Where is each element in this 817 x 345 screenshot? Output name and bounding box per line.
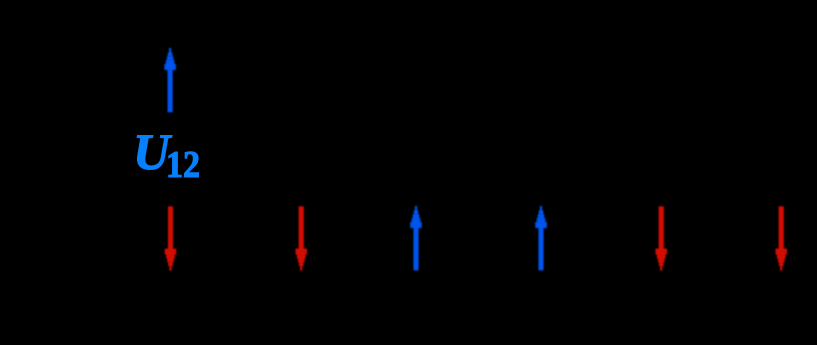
svg-text:12: 12 (166, 144, 200, 186)
